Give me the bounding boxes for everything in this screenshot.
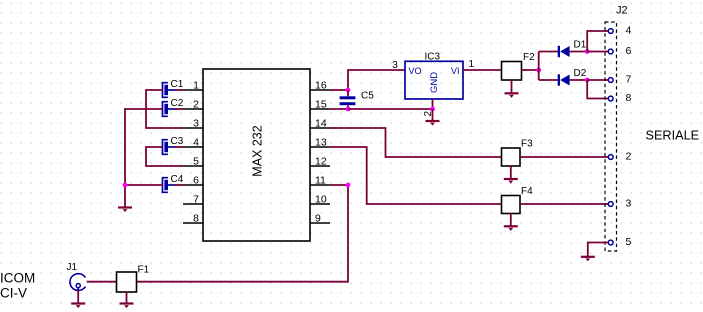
wire C2-pin2 bbox=[175, 108, 184, 110]
pin 14 stub bbox=[310, 127, 330, 129]
J2 pin number 5 bbox=[626, 236, 632, 248]
svg-text:F4: F4 bbox=[521, 186, 533, 197]
J2 pin number 4 bbox=[626, 25, 632, 37]
svg-text:C1: C1 bbox=[171, 79, 184, 90]
ground IC3 bbox=[426, 121, 440, 126]
J2 pin number 2 bbox=[626, 151, 632, 163]
pin number 14 bbox=[315, 118, 327, 130]
pin 12 stub bbox=[310, 165, 330, 167]
pin number 15 bbox=[315, 99, 327, 111]
label F4 bbox=[521, 186, 533, 197]
pin 9 stub bbox=[310, 222, 330, 224]
svg-text:6: 6 bbox=[626, 45, 632, 57]
F3 gnd stub bbox=[510, 166, 512, 179]
wire C3-pin5 bbox=[146, 147, 183, 166]
label CI-V bbox=[0, 286, 27, 301]
diode D1 bbox=[558, 40, 587, 58]
op IC U1 MAX232 body bbox=[203, 69, 310, 241]
svg-text:9: 9 bbox=[315, 213, 321, 225]
fuse F1 body bbox=[117, 272, 137, 292]
pin 2 stub bbox=[183, 108, 203, 110]
IC3 pin VI label bbox=[451, 66, 460, 76]
svg-text:J1: J1 bbox=[67, 262, 78, 273]
svg-text:4: 4 bbox=[626, 25, 632, 37]
pin number 16 bbox=[315, 80, 327, 92]
connector J2 outline bbox=[605, 22, 617, 251]
svg-text:5: 5 bbox=[193, 156, 199, 168]
pin number 4 bbox=[193, 137, 199, 149]
pin 1 stub bbox=[183, 89, 203, 91]
pin number 7 bbox=[193, 194, 199, 206]
svg-text:15: 15 bbox=[315, 99, 327, 111]
svg-text:10: 10 bbox=[315, 194, 327, 206]
pin 3 stub bbox=[183, 127, 203, 129]
svg-text:2: 2 bbox=[193, 99, 199, 111]
pin number 13 bbox=[315, 137, 327, 149]
svg-text:8: 8 bbox=[626, 92, 632, 104]
ground J2 pin5 bbox=[581, 257, 595, 262]
junction C5 top bbox=[346, 88, 351, 93]
fuse F2 body bbox=[502, 62, 522, 81]
wire J1-F1 bbox=[87, 281, 117, 283]
label ICOM bbox=[0, 271, 35, 286]
pin 10 stub bbox=[310, 203, 330, 205]
svg-text:SERIALE: SERIALE bbox=[646, 128, 700, 142]
label F3 bbox=[521, 139, 533, 150]
wire D1-junction bbox=[570, 51, 588, 53]
wire junction-pin6 bbox=[587, 51, 608, 53]
label J2 bbox=[616, 4, 628, 16]
svg-text:F3: F3 bbox=[521, 139, 533, 150]
svg-text:ICOM: ICOM bbox=[0, 271, 35, 286]
IC3 pin 3 number bbox=[392, 60, 398, 71]
wire C3-pin4 bbox=[175, 146, 184, 148]
svg-text:16: 16 bbox=[315, 80, 327, 92]
wire split vertical bbox=[538, 52, 540, 81]
label F1 bbox=[138, 265, 150, 276]
IC3 GND label bbox=[429, 72, 440, 93]
wire IC3 VI-F2 bbox=[463, 69, 502, 71]
J2 pin number 6 bbox=[626, 45, 632, 57]
capacitor C1 bbox=[163, 79, 184, 97]
pin 16 stub bbox=[310, 89, 330, 91]
svg-text:13: 13 bbox=[315, 137, 327, 149]
pin number 1 bbox=[193, 80, 199, 92]
svg-text:3: 3 bbox=[626, 198, 632, 210]
wire pin13-F4 bbox=[330, 147, 502, 204]
wire C4-rail bbox=[125, 184, 163, 186]
pin number 5 bbox=[193, 156, 199, 168]
fuse F4 body bbox=[502, 196, 521, 214]
svg-text:1: 1 bbox=[469, 59, 475, 70]
svg-text:14: 14 bbox=[315, 118, 327, 130]
svg-text:GND: GND bbox=[429, 72, 440, 93]
svg-text:F1: F1 bbox=[138, 265, 150, 276]
wire pin16 bbox=[330, 89, 348, 91]
ground F4 bbox=[504, 226, 518, 231]
svg-text:8: 8 bbox=[193, 213, 199, 225]
connector J1 bbox=[67, 262, 86, 291]
svg-text:VO: VO bbox=[409, 66, 422, 76]
IC3 pin 2 number bbox=[423, 111, 434, 117]
junction F2 split bbox=[536, 68, 541, 73]
wire C1-pin3 bbox=[146, 90, 183, 128]
wire to D2 bbox=[539, 79, 559, 81]
pin 8 stub bbox=[183, 222, 203, 224]
svg-text:4: 4 bbox=[193, 137, 199, 149]
wire F2 out bbox=[522, 69, 539, 71]
svg-text:7: 7 bbox=[193, 194, 199, 206]
pin 7 stub bbox=[183, 203, 203, 205]
wire D2-junction bbox=[570, 79, 588, 81]
pin 13 stub bbox=[310, 146, 330, 148]
wire pin11-F1 bbox=[137, 185, 349, 282]
J2 pin 2 circle bbox=[608, 155, 613, 160]
pin 4 stub bbox=[183, 146, 203, 148]
J1 gnd stub bbox=[77, 291, 79, 304]
wire junction-pin8 bbox=[587, 80, 608, 99]
svg-text:D1: D1 bbox=[574, 40, 587, 51]
wire junction-pin7 bbox=[587, 79, 608, 81]
wire pin14-F3 bbox=[330, 128, 502, 157]
pin number 11 bbox=[315, 175, 326, 187]
ground J1 bbox=[71, 304, 85, 309]
capacitor C3 bbox=[163, 136, 184, 154]
svg-text:6: 6 bbox=[193, 175, 199, 187]
svg-text:11: 11 bbox=[315, 175, 326, 187]
J2 pin 4 circle bbox=[608, 29, 613, 34]
wire C2-rail bbox=[125, 109, 163, 208]
junction pin11 bbox=[346, 183, 351, 188]
wire C4-pin6 bbox=[175, 184, 184, 186]
ground F1 bbox=[120, 304, 134, 309]
pin 11 stub bbox=[310, 184, 330, 186]
IC3 pin VO label bbox=[409, 66, 422, 76]
wire F3-pin2 bbox=[520, 156, 608, 158]
svg-text:IC3: IC3 bbox=[425, 52, 441, 63]
svg-text:D2: D2 bbox=[574, 68, 587, 79]
svg-text:CI-V: CI-V bbox=[0, 286, 27, 301]
junction C5 bottom bbox=[346, 107, 351, 112]
pin number 3 bbox=[193, 118, 199, 130]
J2 pin 6 circle bbox=[608, 49, 613, 54]
wire C5-IC3 gnd bbox=[348, 108, 433, 110]
pin number 10 bbox=[315, 194, 327, 206]
svg-text:C3: C3 bbox=[171, 136, 184, 147]
J2 pin number 3 bbox=[626, 198, 632, 210]
svg-text:7: 7 bbox=[626, 74, 632, 86]
wire C1-pin1 bbox=[175, 89, 184, 91]
capacitor C2 bbox=[163, 98, 184, 116]
F2 gnd stub bbox=[511, 80, 513, 93]
pin number 2 bbox=[193, 99, 199, 111]
wire to D1 bbox=[539, 51, 559, 53]
regulator IC3 body bbox=[405, 61, 463, 99]
J2 pin 7 circle bbox=[608, 78, 613, 83]
pin number 9 bbox=[315, 213, 321, 225]
svg-text:F2: F2 bbox=[523, 52, 535, 63]
junction C4 rail bbox=[123, 183, 128, 188]
svg-text:J2: J2 bbox=[616, 4, 628, 16]
wire pin16-IC3 VO bbox=[348, 70, 405, 90]
ground F3 bbox=[504, 179, 518, 184]
wire pin5 gnd bbox=[588, 243, 609, 257]
J2 pin number 7 bbox=[626, 74, 632, 86]
svg-text:3: 3 bbox=[392, 60, 398, 71]
label MAX 232 bbox=[251, 125, 265, 176]
label IC3 bbox=[425, 52, 441, 63]
svg-text:MAX 232: MAX 232 bbox=[251, 125, 265, 176]
svg-text:C2: C2 bbox=[171, 98, 184, 109]
J2 pin 8 circle bbox=[608, 96, 613, 101]
J2 pin 3 circle bbox=[608, 202, 613, 207]
ground rail left bbox=[118, 208, 132, 213]
F4 gnd stub bbox=[510, 214, 512, 227]
svg-text:1: 1 bbox=[193, 80, 199, 92]
IC3 pin 1 number bbox=[469, 59, 475, 70]
svg-text:VI: VI bbox=[451, 66, 460, 76]
junction D2 bbox=[585, 78, 590, 83]
pin number 6 bbox=[193, 175, 199, 187]
label SERIALE bbox=[646, 128, 700, 142]
pin 15 stub bbox=[310, 108, 330, 110]
svg-text:12: 12 bbox=[315, 156, 327, 168]
svg-text:C5: C5 bbox=[361, 91, 374, 102]
svg-text:C4: C4 bbox=[171, 174, 184, 185]
wire junction-pin4 bbox=[587, 31, 608, 52]
label F2 bbox=[523, 52, 535, 63]
svg-text:2: 2 bbox=[626, 151, 632, 163]
capacitor C4 bbox=[163, 174, 184, 192]
junction IC3 gnd bbox=[430, 107, 435, 112]
ground F2 bbox=[505, 93, 519, 98]
pin number 8 bbox=[193, 213, 199, 225]
IC3 gnd stub bbox=[432, 109, 434, 121]
junction D1 bbox=[585, 49, 590, 54]
fuse F3 body bbox=[502, 148, 521, 166]
pin 6 stub bbox=[183, 184, 203, 186]
svg-text:3: 3 bbox=[193, 118, 199, 130]
F1 gnd stub bbox=[126, 292, 128, 303]
capacitor C5 bbox=[340, 90, 375, 109]
IC3 pin2 wire bbox=[432, 99, 434, 109]
svg-text:5: 5 bbox=[626, 236, 632, 248]
pin number 12 bbox=[315, 156, 327, 168]
wire F4-pin3 bbox=[520, 203, 608, 205]
pin 5 stub bbox=[183, 165, 203, 167]
J2 pin number 8 bbox=[626, 92, 632, 104]
J2 pin 5 circle bbox=[608, 240, 613, 245]
wire pin15 bbox=[330, 108, 348, 110]
diode D2 bbox=[558, 68, 587, 86]
